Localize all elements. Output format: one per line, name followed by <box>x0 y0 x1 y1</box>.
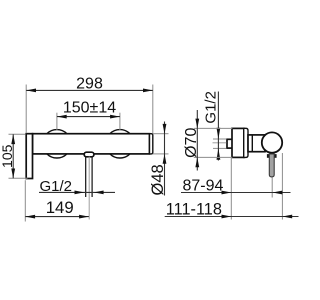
extension line head front <box>281 153 283 220</box>
wall plate left <box>26 134 32 179</box>
dimension G1/2 front <box>39 178 115 195</box>
dimension G1/2 side <box>203 91 227 160</box>
lever handle <box>269 154 274 177</box>
escutcheon circle right (behind bar) <box>106 130 134 158</box>
mixer body side <box>248 135 265 152</box>
svg-text:111-118: 111-118 <box>166 201 222 219</box>
svg-text:G1/2: G1/2 <box>203 91 220 124</box>
svg-text:150±14: 150±14 <box>63 99 116 116</box>
outlet centerline <box>88 157 90 220</box>
dimension 87-94 <box>181 178 291 195</box>
head circle <box>262 132 282 152</box>
escutcheon side <box>232 128 244 157</box>
end cap ring right <box>150 134 153 154</box>
dimension 111-118 <box>165 201 299 219</box>
lever nubs <box>267 154 277 158</box>
svg-text:298: 298 <box>76 76 103 93</box>
dimension 150±14 <box>57 99 120 130</box>
lever tip extension line <box>271 178 273 198</box>
body axis centerline <box>213 142 227 144</box>
svg-text:Ø48: Ø48 <box>149 164 167 195</box>
dimension 298 <box>26 76 153 134</box>
G1/2 stub pipe <box>227 139 233 148</box>
body seam line <box>251 135 253 152</box>
dimension Ø48 <box>149 122 169 196</box>
escutcheon circle left (behind bar) <box>43 130 71 158</box>
dimension Ø70 <box>183 110 232 171</box>
escutcheon front ring <box>244 128 248 157</box>
dimension 105 <box>0 134 28 178</box>
svg-text:Ø70: Ø70 <box>183 128 200 158</box>
svg-text:105: 105 <box>0 144 15 168</box>
mixer body bar <box>33 134 150 154</box>
dimension 149 <box>25 180 89 221</box>
svg-text:149: 149 <box>46 198 74 217</box>
svg-text:87-94: 87-94 <box>183 178 224 195</box>
extension line wall plane <box>230 158 232 220</box>
outlet cap below bar <box>84 152 94 157</box>
outlet pipe walls <box>86 157 92 197</box>
